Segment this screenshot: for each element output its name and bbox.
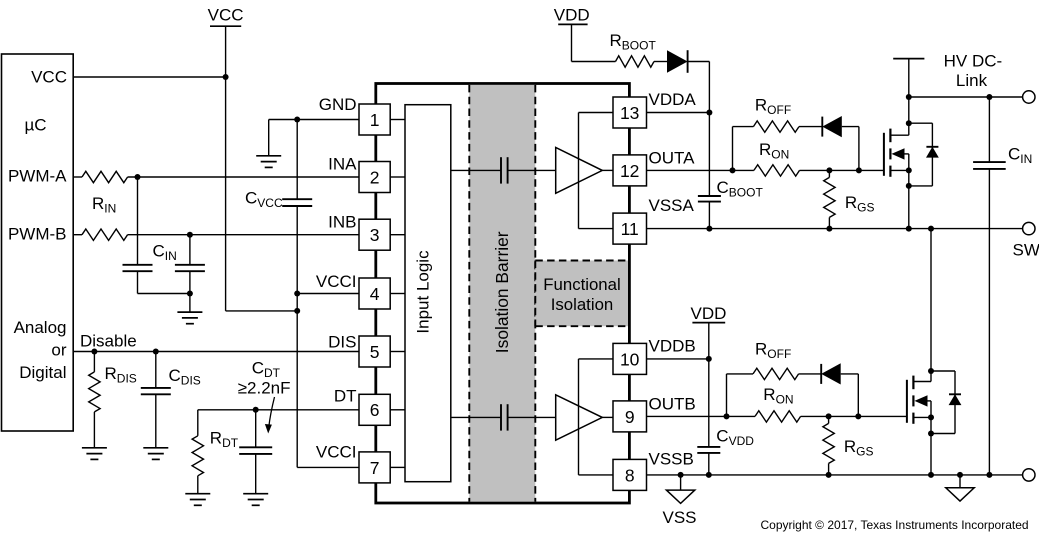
svg-text:Digital: Digital: [19, 363, 66, 382]
svg-text:3: 3: [370, 225, 380, 245]
svg-text:DT: DT: [334, 387, 357, 406]
capacitor CVCC top lead: [296, 120, 298, 200]
wire driver A supply rail: [578, 113, 580, 229]
wire pin11 internal: [579, 228, 614, 230]
wire pin8 internal: [579, 474, 614, 476]
pin 13 box: [613, 97, 647, 128]
wire ROFF-B branch up: [726, 374, 728, 417]
pin 12 box: [613, 155, 647, 186]
resistor RGS-B: [823, 423, 834, 463]
resistor RON-B: [755, 411, 801, 422]
svg-text:Link: Link: [956, 71, 988, 90]
wire pin13 internal: [579, 112, 614, 114]
wire channel B to coupling cap: [451, 416, 501, 418]
wire VDDA node down: [708, 62, 710, 113]
junction HV-Q1: [906, 94, 912, 100]
pin 1 box: [359, 104, 390, 135]
svg-text:PWM-A: PWM-A: [8, 167, 67, 186]
pin 10 box: [613, 343, 647, 374]
wire VDD to RBOOT: [572, 61, 616, 63]
wire OUTB: [647, 415, 756, 417]
wire pin7 to input logic: [390, 466, 405, 468]
svg-text:VDDB: VDDB: [649, 337, 696, 356]
wire Q2 body diode top: [931, 370, 955, 372]
VDD supply bar (top): [558, 23, 587, 25]
wire DOFF-A to join: [842, 126, 859, 128]
junction Q2 diode join: [928, 431, 934, 437]
capacitor CIN-B: [175, 264, 205, 266]
wire pin10 internal: [579, 358, 614, 360]
junction VCC: [223, 74, 229, 80]
arrow CDT pointer: [269, 397, 275, 427]
wire SW: [647, 228, 1023, 230]
junction OUTA split: [730, 167, 736, 173]
wire pin1 to input logic: [390, 119, 405, 121]
capacitor CVDD top lead: [708, 359, 710, 447]
capacitor CIN-B bottom lead: [189, 271, 191, 293]
transistor Q1 body arrow: [892, 148, 905, 159]
svg-text:PWM-B: PWM-B: [8, 224, 67, 243]
resistor RON-A: [754, 165, 800, 176]
capacitor CIN-A bottom lead: [137, 271, 139, 293]
wire VCC vertical: [225, 26, 227, 311]
wire VCCI to pin7: [297, 466, 359, 468]
wire driver B output: [602, 416, 613, 418]
body diode D2 branch: [954, 371, 956, 434]
resistor RGS-B bottom lead: [828, 463, 830, 475]
capacitor CBOOT: [698, 195, 721, 197]
wire ROFF-A branch down: [858, 127, 860, 171]
capacitor CDIS lead: [155, 352, 157, 388]
svg-text:12: 12: [620, 161, 639, 181]
resistor RDIS lead: [93, 352, 95, 372]
wire VDDA: [647, 112, 710, 114]
wire pin4 to input logic: [390, 293, 405, 295]
transistor Q1 source lead: [890, 169, 908, 171]
wire GND pin1: [269, 119, 359, 121]
wire driver A output: [602, 169, 613, 171]
wire PWM-A stub: [73, 176, 82, 178]
wire ROFF-A branch: [733, 126, 754, 128]
svg-text:or: or: [51, 341, 66, 360]
isolation barrier band: [469, 85, 535, 502]
junction CIN-rail: [986, 472, 992, 478]
transistor Q2 channel: [912, 376, 914, 390]
terminal SW: [1023, 222, 1035, 234]
junction SW-Q2drain: [928, 226, 934, 232]
junction VDDA: [706, 110, 712, 116]
ground CIN stem: [189, 294, 191, 313]
pin 7 box: [359, 452, 390, 483]
diode DBOOT: [667, 50, 688, 73]
junction INB node: [187, 232, 193, 238]
ground (GND pin): [256, 155, 281, 157]
capacitor CVCC: [282, 198, 312, 200]
wire VDDB: [647, 358, 709, 360]
driver buffer A: [556, 147, 603, 193]
svg-text:VCC: VCC: [208, 6, 244, 25]
svg-text:VCCI: VCCI: [316, 272, 357, 291]
resistor RDIS: [89, 372, 100, 412]
resistor (PWM-B series): [82, 229, 128, 240]
svg-text:VDD: VDD: [554, 6, 590, 25]
pin 9 box: [613, 401, 647, 432]
junction CDIS: [153, 349, 159, 355]
wire VSSB rail: [647, 474, 1023, 476]
svg-text:7: 7: [370, 458, 380, 478]
wire VCC from uC: [73, 76, 225, 78]
junction RGS-B top: [826, 413, 832, 419]
isolation barrier left dashed edge: [468, 85, 470, 502]
svg-text:OUTB: OUTB: [649, 395, 696, 414]
svg-text:VCCI: VCCI: [316, 443, 357, 462]
resistor ROFF-A: [753, 121, 799, 132]
ground VSS triangle: [666, 490, 694, 503]
svg-text:VCC: VCC: [31, 67, 67, 86]
svg-text:Disable: Disable: [80, 332, 137, 351]
wire Q2 body diode bottom: [931, 433, 955, 435]
junction SW-Q1source: [906, 226, 912, 232]
wire VCC to VCCI rail: [226, 310, 298, 312]
input logic block: [405, 105, 451, 482]
capacitor CIN(bus) bottom lead: [988, 169, 990, 475]
svg-text:4: 4: [370, 284, 380, 304]
resistor RDT bottom lead: [197, 476, 199, 494]
wire DOFF-B to join: [841, 373, 859, 375]
junction Q1 source node: [906, 167, 912, 173]
diode DOFF-A: [821, 117, 823, 137]
wire ROFF-A to diode: [799, 126, 822, 128]
wire coupling cap to driver B: [508, 416, 556, 418]
svg-text:Functional: Functional: [543, 275, 620, 294]
wire DT: [198, 409, 359, 411]
body diode D2: [949, 393, 961, 395]
capacitor CIN(bus) top lead: [988, 97, 990, 162]
wire DIS: [73, 351, 359, 353]
wire ROFF-B to diode: [799, 373, 822, 375]
wire driver B supply rail: [578, 359, 580, 475]
pin 3 box: [359, 219, 390, 250]
svg-text:VSSA: VSSA: [649, 196, 695, 215]
pin 8 box: [613, 459, 647, 490]
transistor Q1 gate bar: [883, 133, 885, 176]
resistor RGS-B lead: [828, 416, 830, 423]
wire VCCI to pin4: [297, 293, 359, 295]
wire pin5 to input logic: [390, 351, 405, 353]
junction RGS-A bottom: [826, 226, 832, 232]
junction Q2 drain-diode: [928, 368, 934, 374]
capacitor CDIS: [141, 387, 171, 389]
resistor RGS-A lead: [828, 170, 830, 177]
junction VSS triangle: [678, 472, 684, 478]
wire Q1 body diode top: [909, 122, 933, 124]
junction CVDD-VSSB: [706, 472, 712, 478]
wire Q1 body diode bottom: [909, 185, 933, 187]
resistor RIN (PWM-A): [82, 171, 128, 182]
resistor RDT: [192, 436, 203, 476]
svg-text:DIS: DIS: [328, 333, 356, 352]
junction OUTB split: [724, 413, 730, 419]
svg-text:INA: INA: [328, 154, 357, 173]
capacitor CDT bottom lead: [255, 454, 257, 494]
ground (input caps): [177, 311, 202, 313]
resistor RDT branch: [197, 410, 199, 436]
wire RBOOT to diode: [654, 61, 667, 63]
junction Q1 drain-diode: [906, 120, 912, 126]
wire VDD-B down: [708, 323, 710, 359]
junction gnd2 triangle: [957, 472, 963, 478]
ground (CDIS): [143, 447, 168, 449]
wire channel A to coupling cap: [451, 169, 501, 171]
pin 6 box: [359, 394, 390, 425]
svg-text:Isolation: Isolation: [551, 295, 614, 314]
wire Q2 drain from SW: [930, 229, 932, 382]
transistor Q2 source lead: [913, 416, 931, 418]
wire ROFF-B branch: [727, 373, 754, 375]
junction VDDB: [706, 356, 712, 362]
junction VCCI-VCC: [294, 308, 300, 314]
svg-text:OUTA: OUTA: [649, 149, 696, 168]
wire GND down: [268, 120, 270, 156]
wire CIN common: [138, 293, 190, 295]
driver buffer B: [556, 395, 603, 440]
wire PWM-B stub: [73, 234, 82, 236]
capacitor CIN-A: [123, 264, 153, 266]
junction HV-CIN: [986, 94, 992, 100]
svg-text:VSS: VSS: [662, 508, 696, 527]
pin 4 box: [359, 278, 390, 309]
junction ROFF-B join: [855, 413, 861, 419]
junction RGS-A top: [826, 167, 832, 173]
resistor RDIS bottom lead: [93, 412, 95, 448]
svg-text:µC: µC: [24, 116, 46, 135]
wire RON-A to gate: [800, 169, 884, 171]
svg-text:GND: GND: [319, 95, 357, 114]
terminal bottom rail: [1023, 469, 1035, 481]
capacitor CDT: [239, 446, 272, 448]
body diode D1: [926, 146, 938, 148]
svg-text:2: 2: [370, 167, 380, 187]
svg-text:13: 13: [620, 103, 639, 123]
coupling capacitor channel A: [500, 157, 502, 183]
svg-text:SW: SW: [1013, 240, 1039, 259]
junction Q2 source-rail: [928, 472, 934, 478]
wire ROFF-B branch down: [857, 374, 859, 417]
transistor Q2 gate bar: [906, 380, 908, 423]
wire INA: [128, 176, 359, 178]
svg-text:≥2.2nF: ≥2.2nF: [238, 379, 291, 398]
pin 11 box: [613, 213, 647, 244]
microcontroller block: [2, 54, 74, 431]
IC outline: [376, 84, 630, 504]
ground triangle (power stage): [959, 475, 961, 488]
wire pin6 to input logic: [390, 409, 405, 411]
wire HV DC-Link rail: [909, 96, 1023, 98]
diode DOFF-B: [820, 364, 822, 384]
terminal HV DC-Link: [1023, 91, 1035, 103]
svg-text:8: 8: [625, 465, 635, 485]
wire pin2 to input logic: [390, 176, 405, 178]
svg-text:Input Logic: Input Logic: [414, 250, 433, 334]
isolation barrier right dashed edge: [534, 85, 536, 502]
ground VSS stem: [680, 475, 682, 490]
ground (RDIS): [82, 447, 107, 449]
svg-text:6: 6: [370, 400, 380, 420]
svg-text:10: 10: [620, 349, 640, 369]
svg-text:5: 5: [370, 342, 380, 362]
junction Q2 source node: [928, 414, 934, 420]
wire pin3 to input logic: [390, 234, 405, 236]
svg-text:VDDA: VDDA: [649, 90, 697, 109]
resistor RGS-A: [824, 177, 835, 217]
junction GND-CVCC: [294, 117, 300, 123]
resistor RBOOT: [616, 56, 655, 67]
wire RON-B to gate: [801, 415, 907, 417]
capacitor CDIS bottom lead: [155, 394, 157, 448]
wire diode to VDDA node: [688, 61, 710, 63]
svg-text:9: 9: [625, 407, 635, 427]
transistor Q1 drain lead: [890, 134, 908, 136]
svg-text:11: 11: [621, 219, 639, 239]
body diode D1 branch: [931, 123, 933, 186]
transistor Q2 drain lead: [913, 381, 931, 383]
capacitor CVDD bottom lead: [708, 453, 710, 475]
svg-text:INB: INB: [328, 213, 356, 232]
svg-text:VDD: VDD: [691, 304, 727, 323]
svg-text:Copyright © 2017, Texas Instru: Copyright © 2017, Texas Instruments Inco…: [760, 518, 1028, 532]
wire OUTA: [647, 169, 754, 171]
capacitor CBOOT bottom lead: [708, 202, 710, 229]
svg-text:1: 1: [370, 110, 380, 130]
pin 5 box: [359, 336, 390, 367]
transistor Q2 body arrow: [915, 395, 928, 406]
capacitor CDT lead: [255, 410, 257, 448]
junction RDIS: [91, 349, 97, 355]
VCC supply bar: [210, 25, 241, 27]
svg-text:Isolation Barrier: Isolation Barrier: [492, 231, 512, 353]
transistor Q1 channel: [889, 129, 891, 143]
wire VDD down: [571, 24, 573, 61]
wire HV bar down: [908, 59, 910, 97]
svg-text:Analog: Analog: [14, 318, 67, 337]
capacitor CIN (bus): [973, 161, 1006, 163]
junction CIN common: [187, 291, 193, 297]
ground (CDT): [243, 493, 268, 495]
wire ROFF-A branch up: [732, 127, 734, 171]
svg-text:HV DC-: HV DC-: [944, 51, 1003, 70]
resistor RGS-A bottom lead: [828, 217, 830, 228]
coupling capacitor channel B: [500, 404, 502, 430]
functional isolation box: [535, 261, 628, 327]
wire coupling cap to driver A: [508, 169, 556, 171]
pin 2 box: [359, 162, 390, 193]
junction VCCI pin4: [294, 291, 300, 297]
wire VCCI rail: [296, 206, 298, 467]
svg-text:VSSB: VSSB: [649, 449, 694, 468]
junction Q1 diode join: [906, 183, 912, 189]
capacitor CIN-A lead: [137, 177, 139, 265]
junction INA node: [135, 174, 141, 180]
VDD supply bar (bottom): [692, 322, 725, 324]
wire INB: [128, 234, 359, 236]
capacitor CBOOT top lead: [708, 113, 710, 197]
capacitor CIN-B lead: [189, 235, 191, 265]
ground (RDT): [185, 493, 210, 495]
HV DC-Link supply bar: [893, 58, 924, 60]
junction CDT: [253, 407, 259, 413]
capacitor CVDD: [697, 446, 720, 448]
junction ROFF-A join: [856, 167, 862, 173]
resistor ROFF-B: [753, 368, 799, 379]
junction CBOOT-VSSA: [706, 226, 712, 232]
junction RGS-B bottom: [826, 472, 832, 478]
